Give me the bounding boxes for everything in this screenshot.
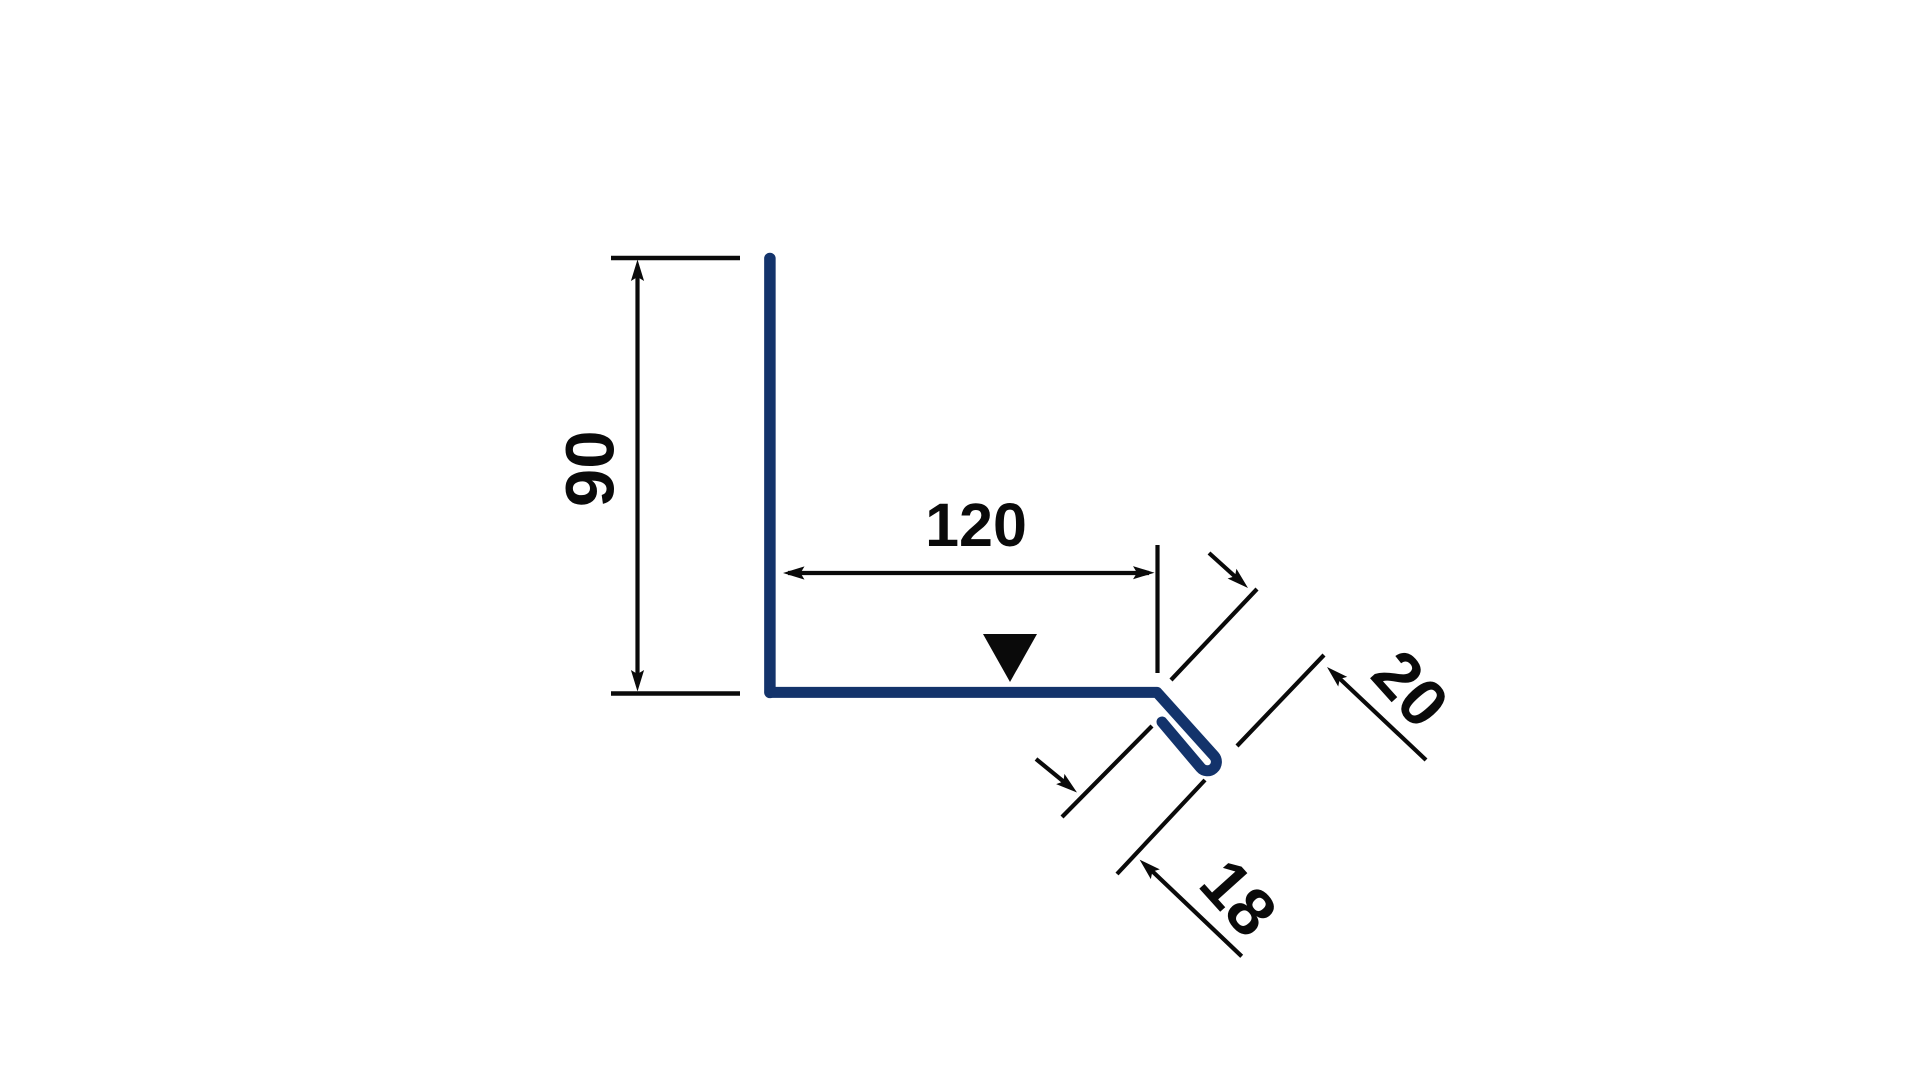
extension line right (120 dim): [1155, 545, 1159, 673]
extension line top (90 dim): [611, 256, 740, 261]
arrow up (90 top): [631, 260, 644, 282]
extension line at hem end (20 dim): [1237, 655, 1324, 746]
arrow line A (20 dim upper): [1209, 553, 1240, 581]
arrow left (120): [783, 566, 805, 579]
profile bottom leg and hem fold (blue): [770, 692, 1217, 770]
dimension line 90: [635, 268, 639, 684]
extension line bottom (90 dim): [611, 691, 740, 696]
extension line at hem U (18 dim): [1117, 780, 1205, 874]
arrow line C (18 dim upper): [1036, 759, 1069, 786]
arrow right (120): [1133, 566, 1155, 579]
arrow down (90 bottom): [631, 670, 644, 692]
svg-text:120: 120: [925, 491, 1027, 559]
profile vertical leg (blue): [764, 259, 776, 693]
arrow line B (20 dim lower with leader): [1338, 677, 1426, 760]
direction triangle marker: [983, 634, 1037, 682]
dimension line 120: [788, 571, 1149, 575]
extension line at hem cap (18 dim): [1062, 726, 1152, 817]
extension line at bend (20 dim): [1171, 589, 1257, 680]
svg-text:90: 90: [552, 430, 629, 507]
arrow line D (18 dim lower with leader): [1151, 870, 1242, 956]
